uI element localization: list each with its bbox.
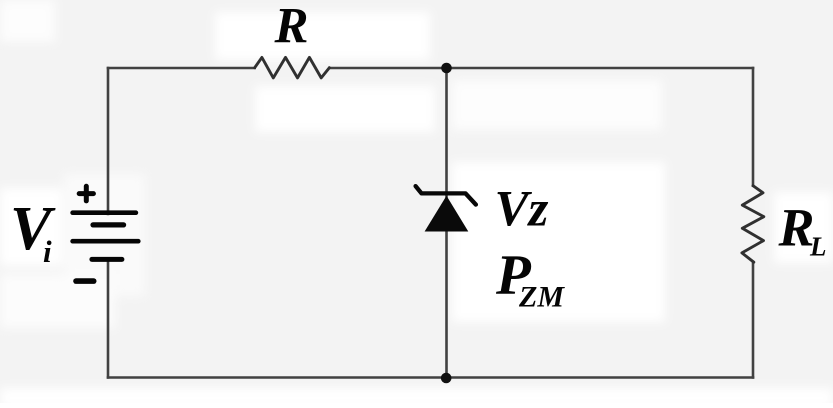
svg-text:i: i xyxy=(43,234,52,269)
svg-text:ZM: ZM xyxy=(518,281,565,314)
svg-text:Vz: Vz xyxy=(495,181,549,237)
svg-text:R: R xyxy=(274,0,309,55)
svg-text:L: L xyxy=(809,232,827,262)
svg-text:R: R xyxy=(778,198,815,258)
